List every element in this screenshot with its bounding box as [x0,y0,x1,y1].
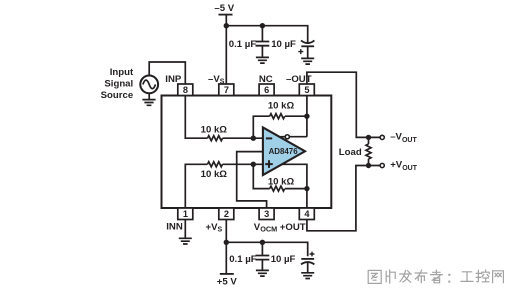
svg-text:Signal: Signal [104,79,133,90]
svg-text:1: 1 [183,209,188,219]
svg-text:INP: INP [165,74,182,85]
svg-text:–OUT: –OUT [286,74,312,85]
svg-text:VOCM: VOCM [254,222,277,234]
svg-text:10 µF: 10 µF [271,254,296,265]
svg-text:10 µF: 10 µF [271,39,296,50]
svg-text:AD8476: AD8476 [269,146,298,156]
svg-text:–VOUT: –VOUT [390,132,417,144]
svg-text:10 kΩ: 10 kΩ [268,101,295,112]
svg-text:Input: Input [110,67,134,78]
svg-text:–VS: –VS [208,74,225,86]
svg-text:NC: NC [259,74,273,85]
svg-text:2: 2 [224,209,229,219]
svg-text:INN: INN [166,222,183,233]
svg-text:10 kΩ: 10 kΩ [201,169,228,180]
svg-text:6: 6 [264,85,269,95]
svg-text:3: 3 [264,209,269,219]
svg-text:+OUT: +OUT [280,222,306,233]
svg-text:+VS: +VS [206,222,223,234]
svg-text:10 kΩ: 10 kΩ [268,176,295,187]
svg-text:–5 V: –5 V [214,3,234,14]
svg-text:Source: Source [101,90,134,101]
svg-text:+5 V: +5 V [217,277,238,288]
svg-text:+VOUT: +VOUT [390,160,418,172]
svg-text:0.1 µF: 0.1 µF [229,39,257,50]
svg-text:0.1 µF: 0.1 µF [229,254,257,265]
svg-text:7: 7 [224,85,229,95]
svg-text:8: 8 [183,85,188,95]
svg-text:10 kΩ: 10 kΩ [201,125,228,136]
svg-text:5: 5 [304,85,309,95]
svg-text:4: 4 [304,209,310,219]
svg-text:Load: Load [339,147,362,158]
